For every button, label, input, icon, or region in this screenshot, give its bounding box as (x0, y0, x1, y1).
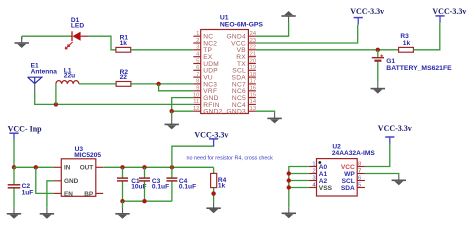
ground (7, 208, 21, 219)
U2 pin 8 VCC (341, 162, 365, 172)
svg-text:LED: LED (71, 23, 84, 30)
svg-text:WP: WP (344, 171, 355, 178)
ground (392, 174, 406, 185)
antenna E1 (28, 63, 58, 92)
svg-text:1uF: 1uF (22, 189, 34, 196)
junction (12, 165, 16, 169)
wire (213, 167, 215, 173)
U1 pin 22 VB (237, 45, 256, 55)
svg-text:7: 7 (358, 169, 361, 175)
svg-text:MIC5205: MIC5205 (74, 152, 101, 159)
U1 pin 20 TX (237, 58, 256, 68)
svg-text:SCL: SCL (342, 178, 355, 185)
ground (165, 118, 179, 129)
svg-text:A1: A1 (319, 171, 328, 178)
svg-text:GND2: GND2 (203, 109, 223, 116)
U1 pin 12 GND2 (193, 106, 223, 116)
svg-text:2: 2 (312, 169, 315, 175)
U1 pin 15 NC5 (232, 92, 256, 102)
U1 pin 16 NC6 (232, 86, 256, 96)
U1 pin 21 RX (236, 52, 256, 62)
wire (171, 111, 173, 118)
U1 pin 1 NC (193, 31, 213, 41)
power VCC-3.3v (194, 130, 228, 146)
svg-text:1: 1 (312, 162, 315, 168)
wire (377, 62, 379, 83)
junction (170, 165, 174, 169)
U1 pin 7 VU (193, 72, 213, 82)
U1 pin 18 SDA (232, 72, 257, 82)
wire (256, 22, 289, 36)
svg-text:18: 18 (250, 72, 256, 78)
resistor R2 22 (116, 69, 131, 87)
U1 pin 23 VCC (231, 38, 256, 48)
junction (54, 102, 58, 106)
junction (120, 199, 124, 203)
ground (371, 83, 385, 94)
svg-text:22: 22 (120, 74, 128, 81)
junction (287, 185, 291, 189)
power VCC-3.3v (378, 124, 412, 144)
svg-text:6: 6 (196, 65, 199, 71)
wire (256, 49, 399, 51)
svg-text:BATTERY_MS621FE: BATTERY_MS621FE (386, 65, 452, 72)
svg-text:G1: G1 (386, 58, 395, 65)
capacitor C1 10uF (117, 167, 147, 201)
junction (211, 191, 215, 195)
svg-text:7: 7 (196, 72, 199, 78)
junction (376, 48, 380, 52)
power VCC-Inp (8, 124, 43, 139)
wire (13, 188, 15, 207)
svg-text:1k: 1k (120, 40, 128, 47)
U2 pin 3 A2 (309, 176, 328, 186)
ground (115, 208, 129, 219)
wire (172, 98, 194, 112)
U3 pin EN (54, 191, 73, 198)
junction (287, 171, 291, 175)
resistor R4 1k (211, 173, 227, 189)
U2 pin 6 SCL (342, 176, 365, 186)
capacitor C4 0.1uF (166, 167, 196, 201)
wire (103, 166, 213, 168)
svg-text:6: 6 (358, 176, 361, 182)
svg-text:13: 13 (250, 106, 256, 112)
wire (172, 110, 194, 112)
junction (142, 165, 146, 169)
ground (281, 11, 295, 22)
svg-text:A2: A2 (319, 178, 328, 185)
svg-text:GND3: GND3 (226, 109, 246, 116)
wire (172, 146, 214, 167)
junction (142, 199, 146, 203)
wire (35, 92, 194, 105)
svg-text:22u: 22u (64, 73, 75, 80)
wire (289, 173, 309, 175)
U1 pin 3 TP (193, 45, 212, 55)
U1 pin 10 GND (193, 92, 219, 102)
wire (256, 25, 358, 43)
svg-text:8: 8 (196, 79, 199, 85)
wire (122, 201, 124, 208)
battery G1 BATTERY_MS621FE (372, 54, 452, 72)
wire (55, 84, 57, 105)
svg-text:5: 5 (196, 58, 199, 64)
U1 pin 8 NC3 (193, 79, 217, 89)
wire (289, 187, 309, 189)
svg-text:3: 3 (196, 45, 199, 51)
svg-text:1k: 1k (218, 183, 226, 190)
IC U1 NEO-6M-GPS (193, 14, 264, 115)
U1 pin 9 VRF (193, 86, 217, 96)
svg-text:19: 19 (250, 65, 256, 71)
svg-text:2: 2 (196, 38, 199, 44)
svg-text:22: 22 (250, 45, 256, 51)
U3 pin OUT (80, 165, 104, 172)
resistor R3 1k (399, 33, 414, 52)
U1 pin 6 UDP (193, 65, 218, 75)
LED D1 (65, 17, 88, 49)
svg-text:OUT: OUT (80, 165, 94, 172)
wire (36, 167, 54, 193)
wire (413, 23, 439, 50)
svg-text:SDA: SDA (341, 185, 355, 192)
wire (159, 84, 194, 91)
svg-text:0.1uF: 0.1uF (152, 184, 169, 191)
ground (40, 208, 54, 219)
svg-text:no need for resistor R4, cross: no need for resistor R4, cross check (187, 155, 274, 161)
svg-text:23: 23 (250, 38, 256, 44)
regulator U3 MIC5205 (54, 146, 103, 198)
svg-text:VCC-3.3v: VCC-3.3v (378, 124, 412, 133)
svg-text:NEO-6M-GPS: NEO-6M-GPS (220, 21, 264, 28)
svg-text:EN: EN (64, 191, 73, 198)
svg-text:GND: GND (64, 178, 79, 185)
U2 pin 1 A0 (309, 162, 328, 172)
junction (170, 109, 174, 113)
svg-text:VCC- Inp: VCC- Inp (8, 124, 43, 133)
U1 pin 5 UDM (193, 58, 219, 68)
wire (88, 36, 116, 50)
U1 pin 2 NC2 (193, 38, 217, 48)
U2 pin 4 VSS (309, 183, 333, 193)
svg-text:17: 17 (250, 79, 256, 85)
svg-text:0.1uF: 0.1uF (179, 184, 196, 191)
ground (282, 207, 296, 218)
power VCC-3.3v (350, 7, 384, 25)
svg-text:5: 5 (358, 183, 361, 189)
wire (14, 166, 54, 168)
U3 pin IN (54, 165, 71, 172)
capacitor C3 0.1uF (139, 167, 169, 201)
wire (79, 83, 116, 85)
svg-text:R3: R3 (400, 33, 409, 40)
IC U2 24AA32A-IMS (309, 144, 376, 196)
wire (365, 173, 399, 176)
ground (206, 202, 220, 213)
power VCC-3.3v (432, 7, 466, 23)
wire (213, 188, 215, 203)
svg-text:VCC: VCC (341, 164, 355, 171)
U2 pin 7 WP (344, 169, 365, 179)
svg-text:BP: BP (84, 191, 94, 198)
svg-text:VCC-3.3v: VCC-3.3v (194, 130, 228, 139)
inductor L1 22u (56, 68, 79, 84)
svg-text:IN: IN (64, 165, 71, 172)
wire (13, 167, 15, 184)
svg-text:14: 14 (250, 99, 257, 105)
svg-text:12: 12 (193, 106, 199, 112)
U1 pin 14 NC4 (232, 99, 257, 109)
wire (377, 50, 379, 58)
resistor R1 1k (116, 34, 131, 52)
svg-text:11: 11 (193, 99, 199, 105)
wire (13, 140, 15, 168)
svg-text:21: 21 (250, 52, 256, 58)
U1 pin 11 RFIN (193, 99, 220, 109)
wire (131, 49, 194, 51)
svg-text:3: 3 (312, 176, 315, 182)
svg-text:VSS: VSS (319, 185, 333, 192)
svg-text:A0: A0 (319, 164, 328, 171)
capacitor C2 1uF (8, 183, 34, 196)
svg-text:1k: 1k (403, 40, 411, 47)
svg-text:16: 16 (250, 86, 256, 92)
wire (22, 35, 72, 37)
ground (21, 36, 23, 39)
U1 pin 4 EX (193, 52, 213, 62)
ground (267, 112, 281, 123)
junction (120, 165, 124, 169)
wire (47, 181, 54, 208)
wire (256, 111, 275, 112)
U1 pin 13 GND3 (226, 106, 256, 116)
junction (287, 178, 291, 182)
svg-text:24AA32A-IMS: 24AA32A-IMS (332, 150, 375, 157)
U1 pin 24 GND4 (226, 31, 256, 41)
svg-text:10: 10 (193, 92, 199, 98)
svg-text:9: 9 (196, 86, 199, 92)
svg-text:1: 1 (196, 31, 199, 37)
svg-text:8: 8 (358, 162, 361, 168)
svg-text:20: 20 (250, 58, 256, 64)
junction (34, 165, 38, 169)
U1 pin 19 SCL (232, 65, 256, 75)
junction (156, 82, 160, 86)
svg-text:VCC-3.3v: VCC-3.3v (432, 7, 466, 16)
wire (289, 167, 309, 208)
U3 pin BP (84, 191, 103, 198)
svg-text:VCC-3.3v: VCC-3.3v (350, 7, 384, 16)
wire (131, 83, 193, 85)
wire (123, 200, 172, 202)
svg-text:Antenna: Antenna (31, 68, 58, 75)
svg-text:15: 15 (250, 92, 256, 98)
svg-text:24: 24 (250, 31, 257, 37)
wire (289, 180, 309, 182)
U1 pin 17 NC7 (232, 79, 256, 89)
wire (365, 144, 390, 167)
U2 pin 5 SDA (341, 183, 365, 193)
U2 pin 2 A1 (309, 169, 328, 179)
U3 pin GND (54, 178, 79, 185)
